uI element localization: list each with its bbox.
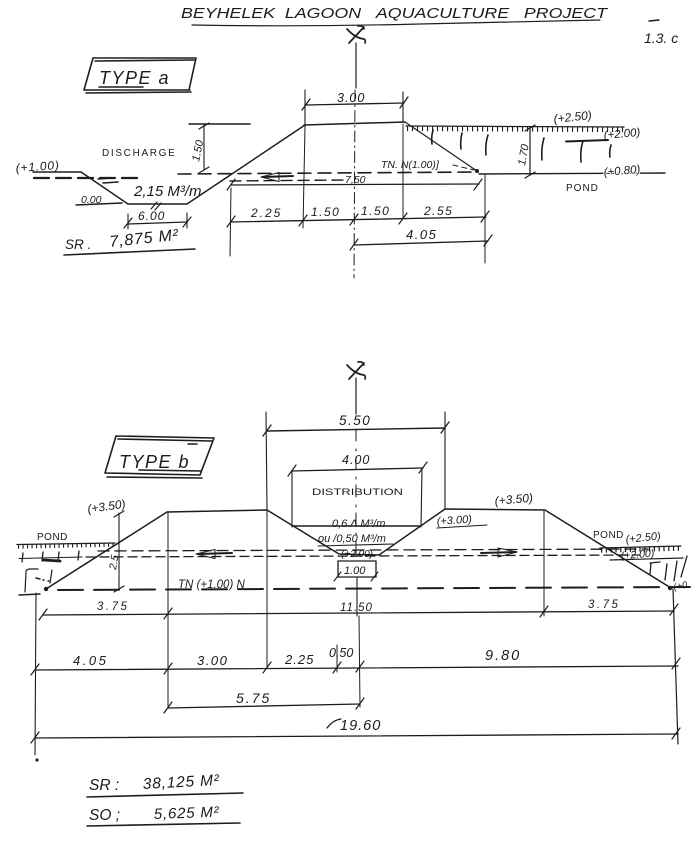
svg-text:5.50: 5.50 — [339, 413, 371, 428]
pond water surface comb — [407, 129, 624, 130]
svg-text:DISCHARGE: DISCHARGE — [102, 148, 176, 159]
svg-text:SR .: SR . — [65, 237, 91, 252]
svg-text:BEYHELEK LAGOON AQUACULTURE: BEYHELEK LAGOON AQUACULTURE PROJECT — [181, 5, 609, 22]
dike B outline — [19, 509, 671, 595]
svg-text:POND: POND — [593, 530, 624, 541]
dim 1.50 vertical — [203, 125, 205, 170]
TYPE a label box — [84, 58, 196, 93]
left pond hatch base — [17, 543, 115, 545]
centerline channel B — [355, 429, 357, 553]
svg-text:7,875 M²: 7,875 M² — [109, 227, 180, 251]
left pond level marks — [19, 557, 82, 559]
water line heavy dash left — [34, 177, 140, 179]
SECTION-BOTTOM — [17, 362, 690, 826]
svg-text:TYPE a: TYPE a — [99, 68, 170, 88]
svg-text:4.05: 4.05 — [406, 227, 437, 242]
svg-text:DISTRIBUTION: DISTRIBUTION — [312, 487, 403, 498]
water line dashed lower — [230, 180, 345, 181]
svg-text:SO ;: SO ; — [89, 807, 120, 824]
svg-text:4.00: 4.00 — [342, 453, 370, 467]
svg-text:(+0: (+0 — [673, 580, 689, 593]
svg-text:2,15 M³/m: 2,15 M³/m — [133, 183, 202, 200]
svg-text:(+3.50): (+3.50) — [494, 491, 533, 508]
svg-text:POND: POND — [37, 532, 68, 543]
svg-text:3.00: 3.00 — [197, 653, 228, 668]
svg-text:TYPE b: TYPE b — [119, 452, 190, 472]
pond bottom line +0.80 — [479, 173, 665, 174]
svg-text:0,6 Λ M³/m: 0,6 Λ M³/m — [332, 518, 385, 530]
svg-text:2.55: 2.55 — [423, 204, 453, 218]
water symbol — [98, 178, 118, 183]
crest level line left — [189, 123, 250, 125]
svg-text:1.3. c: 1.3. c — [644, 30, 678, 46]
svg-text:2.25: 2.25 — [250, 206, 282, 220]
dim 1.70 vertical — [529, 127, 531, 175]
right toe vertical — [673, 589, 678, 744]
reed marks below water — [432, 130, 611, 162]
svg-text:1.00: 1.00 — [344, 565, 366, 577]
svg-text:2.25: 2.25 — [284, 652, 314, 667]
svg-text:(+2.50): (+2.50) — [553, 108, 593, 126]
svg-text:5,625 M²: 5,625 M² — [154, 804, 220, 823]
title underline — [192, 20, 600, 26]
dike A right slope — [405, 122, 477, 171]
dike A crest — [304, 122, 405, 125]
discharge channel and dike left slope — [81, 125, 305, 204]
flow arrow discharge — [263, 176, 293, 177]
svg-text:9.80: 9.80 — [485, 648, 521, 664]
centerline dike A — [354, 90, 355, 278]
svg-text:38,125 M²: 38,125 M² — [142, 772, 220, 793]
left pond comb — [18, 545, 114, 547]
extension verticals B — [168, 511, 544, 707]
svg-text:SR :: SR : — [89, 777, 119, 794]
svg-text:1.50: 1.50 — [361, 204, 390, 218]
extension verticals A — [230, 124, 485, 263]
section marker pickaxe bottom — [347, 362, 365, 379]
svg-text:3.75: 3.75 — [588, 599, 620, 611]
section marker pickaxe top — [347, 26, 365, 43]
svg-text:1.50: 1.50 — [311, 205, 340, 219]
right pond comb — [601, 549, 681, 551]
svg-text:11.50: 11.50 — [340, 602, 373, 614]
water line dashed — [178, 172, 478, 174]
svg-text:(+2.50): (+2.50) — [625, 530, 662, 546]
pond water surface hatch base — [406, 126, 624, 127]
flow arrow left pond — [198, 553, 232, 554]
svg-text:(+0.80): (+0.80) — [603, 164, 641, 179]
TYPE b label box — [105, 436, 214, 478]
svg-text:TN. N(1.00)]: TN. N(1.00)] — [381, 159, 440, 171]
svg-text:6.00: 6.00 — [138, 209, 165, 223]
svg-text:5.75: 5.75 — [236, 690, 271, 706]
gauge box 1.00 — [338, 561, 376, 577]
svg-text:POND: POND — [566, 183, 599, 194]
svg-text:19.60: 19.60 — [340, 718, 381, 734]
svg-text:0.50: 0.50 — [329, 646, 353, 660]
SECTION-TOP — [15, 5, 678, 278]
svg-text:4.05: 4.05 — [73, 653, 108, 668]
centerline below gauge box — [356, 578, 358, 616]
svg-text:3.75: 3.75 — [97, 601, 129, 613]
channel water line +3.00 — [292, 525, 420, 527]
left outer vertical — [35, 593, 36, 755]
slope marks right — [650, 556, 687, 581]
water line dashed B upper — [98, 549, 648, 551]
TN line B — [58, 587, 690, 590]
svg-text:TN (+1.00) N: TN (+1.00) N — [178, 579, 245, 591]
dim 2.5 vertical left — [118, 513, 120, 589]
flow arrow right pond — [481, 552, 516, 553]
right pond hatch base — [600, 546, 681, 548]
svg-text:3.00: 3.00 — [337, 91, 365, 105]
channel bottom mark — [151, 202, 161, 210]
water line dashed B lower — [86, 555, 640, 557]
svg-text:ou /0,50 M³/m: ou /0,50 M³/m — [318, 533, 386, 545]
riprap detail box — [25, 569, 52, 592]
